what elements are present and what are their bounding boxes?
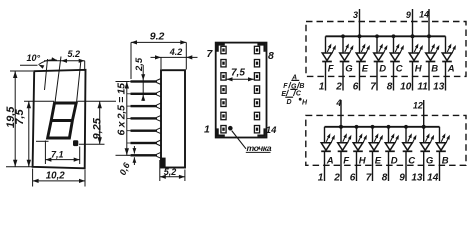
schematic 1: bus junction: [427, 34, 431, 38]
svg-text:F: F: [343, 156, 349, 167]
svg-text:B: B: [442, 156, 449, 167]
rear view: pin hole left row 3: [221, 73, 226, 80]
svg-text:1: 1: [319, 81, 325, 92]
schematic 1: bus junction: [358, 34, 362, 38]
side view: package body: [161, 70, 185, 167]
svg-text:4: 4: [335, 98, 341, 108]
rear view: pin hole left row 7: [221, 126, 226, 133]
rear view: pin hole left row 5: [221, 99, 226, 106]
svg-text:D: D: [287, 99, 292, 106]
rear view: pin hole right row 2: [254, 60, 259, 67]
front view: slanted extension lines (digit slant): [45, 59, 48, 90]
side view: pin lead 6: [131, 142, 158, 144]
schematic 2: LED C pin 9: [399, 127, 416, 184]
front view: italic digit 8 (all segments): [48, 103, 77, 138]
rear view: pin hole right row 6: [254, 112, 259, 119]
svg-text:9,25: 9,25: [92, 117, 104, 139]
schematic 2: bus junction at pin 12: [422, 125, 426, 129]
svg-text:G: G: [345, 63, 353, 74]
rear view: decimal point marker (dot): [228, 126, 233, 131]
schematic 2: LED A pin 1: [318, 127, 335, 184]
svg-text:13: 13: [433, 81, 445, 92]
schematic 2: LED D pin 8: [382, 127, 399, 184]
schematic 2: bus junction: [339, 125, 343, 129]
rear view: pin hole right row 3: [254, 73, 259, 80]
schematic 1: common pin 14 stub: [428, 9, 430, 36]
schematic 1: bus junction: [375, 34, 379, 38]
svg-text:2: 2: [333, 173, 340, 184]
svg-text:4.2: 4.2: [169, 47, 183, 57]
schematic 1: common pin 9 stub: [412, 9, 414, 36]
svg-text:9.2: 9.2: [150, 31, 165, 43]
schematic 1: common pin 3 stub: [359, 9, 361, 36]
side view: pin lead 2: [131, 93, 158, 95]
schematic 2: anode bus: [325, 126, 440, 128]
svg-text:E: E: [375, 156, 382, 167]
schematic 2: bus junction: [355, 125, 359, 129]
schematic 2: LED E pin 7: [366, 127, 383, 184]
side view: pin lead 4: [131, 117, 158, 119]
side view: dimension 0.6 (pin thickness): [133, 146, 135, 154]
side view: dimension 6 x 2.5 = 15 (pin row): [116, 81, 130, 83]
rear view: corner brackets: [218, 45, 225, 52]
svg-text:A: A: [447, 63, 455, 74]
rear view: tochka leader and label: [232, 131, 246, 149]
side view: pin lead 7: [131, 154, 158, 156]
svg-text:14: 14: [427, 173, 439, 184]
rear view: package outline: [216, 43, 267, 138]
svg-text:12: 12: [413, 100, 423, 110]
svg-text:точка: точка: [247, 143, 272, 153]
side view: pin lead 5: [131, 130, 158, 132]
front view: dimension 7.5 (digit area): [24, 100, 54, 102]
schematic 1: LED C pin 8: [387, 36, 404, 92]
svg-text:7: 7: [366, 173, 372, 184]
svg-text:C: C: [396, 63, 403, 74]
schematic 1: LED G pin 2: [335, 36, 353, 92]
schematic 2: LED B pin 14: [427, 127, 450, 184]
schematic 1: dashed enclosure: [306, 22, 466, 77]
svg-text:10°: 10°: [27, 53, 41, 63]
schematic 2: common pin 4 stub: [340, 100, 342, 127]
rear view: pin hole left row 1: [221, 46, 226, 53]
schematic 1: LED E pin 6: [353, 36, 370, 92]
svg-text:14: 14: [266, 125, 277, 136]
rear view: pin hole left row 6: [221, 112, 226, 119]
side view: pin lead 1: [131, 80, 158, 82]
schematic 1: bus junction: [411, 34, 415, 38]
svg-text:8: 8: [387, 81, 393, 92]
rear view: pin hole left row 2: [221, 60, 226, 67]
svg-text:8: 8: [382, 173, 388, 184]
front view: dimension 19.5 (left, overall height): [10, 70, 33, 72]
svg-text:7,5: 7,5: [14, 109, 26, 125]
svg-text:9: 9: [406, 10, 411, 20]
svg-text:D: D: [379, 63, 386, 74]
rear view: pin hole right row 7: [254, 126, 259, 133]
svg-text:10,2: 10,2: [46, 170, 65, 181]
svg-text:G: G: [426, 156, 434, 167]
schematic 1: LED F pin 1: [319, 36, 336, 92]
svg-text:H: H: [359, 156, 367, 167]
svg-text:7,1: 7,1: [51, 150, 64, 160]
svg-text:6: 6: [350, 173, 356, 184]
svg-text:10: 10: [400, 81, 412, 92]
svg-text:1: 1: [318, 173, 324, 184]
schematic 1: bus junction at pin 3: [358, 34, 362, 38]
svg-text:6 x 2,5 = 15: 6 x 2,5 = 15: [115, 83, 127, 136]
svg-text:H: H: [415, 63, 423, 74]
front view: decimal point: [73, 140, 78, 146]
schematic 1: bus junction at pin 9: [411, 34, 415, 38]
svg-text:1: 1: [204, 124, 210, 136]
svg-text:E: E: [362, 63, 369, 74]
schematic 2: bus junction: [387, 125, 391, 129]
schematic 1: bus junction at pin 14: [427, 34, 431, 38]
svg-text:B: B: [431, 63, 438, 74]
svg-text:8: 8: [268, 50, 274, 62]
svg-text:3: 3: [353, 10, 358, 20]
front view: display body outline: [33, 70, 86, 169]
schematic 2: LED G pin 13: [411, 127, 434, 184]
svg-text:B: B: [299, 83, 304, 90]
rear view: pin hole right row 5: [254, 99, 259, 106]
schematic 2: LED F pin 2: [333, 127, 351, 184]
svg-text:C: C: [408, 156, 415, 167]
svg-text:A: A: [326, 156, 334, 167]
schematic 2: common pin 12 stub: [423, 100, 425, 127]
front view: dimension 9.25 (right side): [78, 100, 117, 102]
rear view: pin hole right row 1: [254, 46, 259, 53]
rear view: pin hole right row 4: [254, 86, 259, 93]
svg-text:6: 6: [353, 81, 359, 92]
schematic 2: bus junction: [422, 125, 426, 129]
svg-text:7,5: 7,5: [231, 68, 245, 79]
schematic 2: bus junction: [404, 125, 408, 129]
svg-text:F: F: [283, 83, 288, 90]
svg-text:F: F: [328, 63, 334, 74]
schematic 1: LED A pin 13: [433, 36, 456, 92]
svg-text:D: D: [391, 156, 398, 167]
rear view: pin hole left row 4: [221, 86, 226, 93]
svg-text:11: 11: [417, 81, 428, 92]
svg-text:2: 2: [335, 81, 342, 92]
schematic 1: bus junction: [341, 34, 345, 38]
schematic 1: LED B pin 11: [417, 36, 439, 92]
schematic 2: bus junction: [371, 125, 375, 129]
side view: pin lead 3: [131, 105, 158, 107]
schematic 1: bus junction: [392, 34, 396, 38]
schematic 1: LED H pin 10: [400, 36, 423, 92]
svg-text:13: 13: [411, 173, 423, 184]
schematic 2: dashed enclosure: [306, 115, 466, 165]
schematic 1: anode bus: [326, 35, 446, 37]
schematic 2: bus junction at pin 4: [339, 125, 343, 129]
svg-text:14: 14: [419, 10, 429, 20]
side view: bottom step notch: [160, 158, 165, 168]
schematic 1: LED D pin 7: [370, 36, 387, 92]
svg-text:5.2: 5.2: [68, 49, 81, 59]
schematic 2: LED H pin 6: [350, 127, 367, 184]
svg-text:9: 9: [399, 173, 405, 184]
svg-text:7: 7: [370, 81, 376, 92]
